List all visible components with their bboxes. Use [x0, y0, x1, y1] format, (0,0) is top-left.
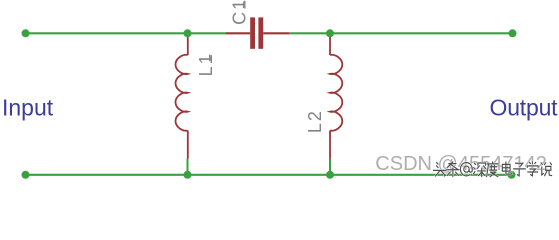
inductor L2 [330, 35, 342, 159]
node bottom-left [22, 171, 30, 179]
svg-text:C1: C1 [230, 0, 250, 25]
capacitor C1 [226, 17, 289, 48]
svg-text:L1: L1 [196, 52, 216, 76]
svg-text:Input: Input [2, 95, 54, 121]
node D (L2 bottom) [326, 171, 334, 179]
svg-text:Output: Output [490, 95, 559, 121]
wire L1 bottom green segment [187, 159, 189, 175]
node bottom-right [508, 171, 516, 179]
node A (L1 top) [184, 29, 192, 37]
node B (L2 top) [326, 29, 334, 37]
node top-right [509, 29, 517, 37]
wire L2 bottom green segment [329, 159, 331, 175]
inductor L1 [176, 35, 188, 159]
svg-text:L2: L2 [305, 109, 325, 133]
top wire [26, 32, 513, 34]
node C (L1 bottom) [184, 171, 192, 179]
node top-left [22, 29, 30, 37]
bottom wire [26, 174, 512, 176]
